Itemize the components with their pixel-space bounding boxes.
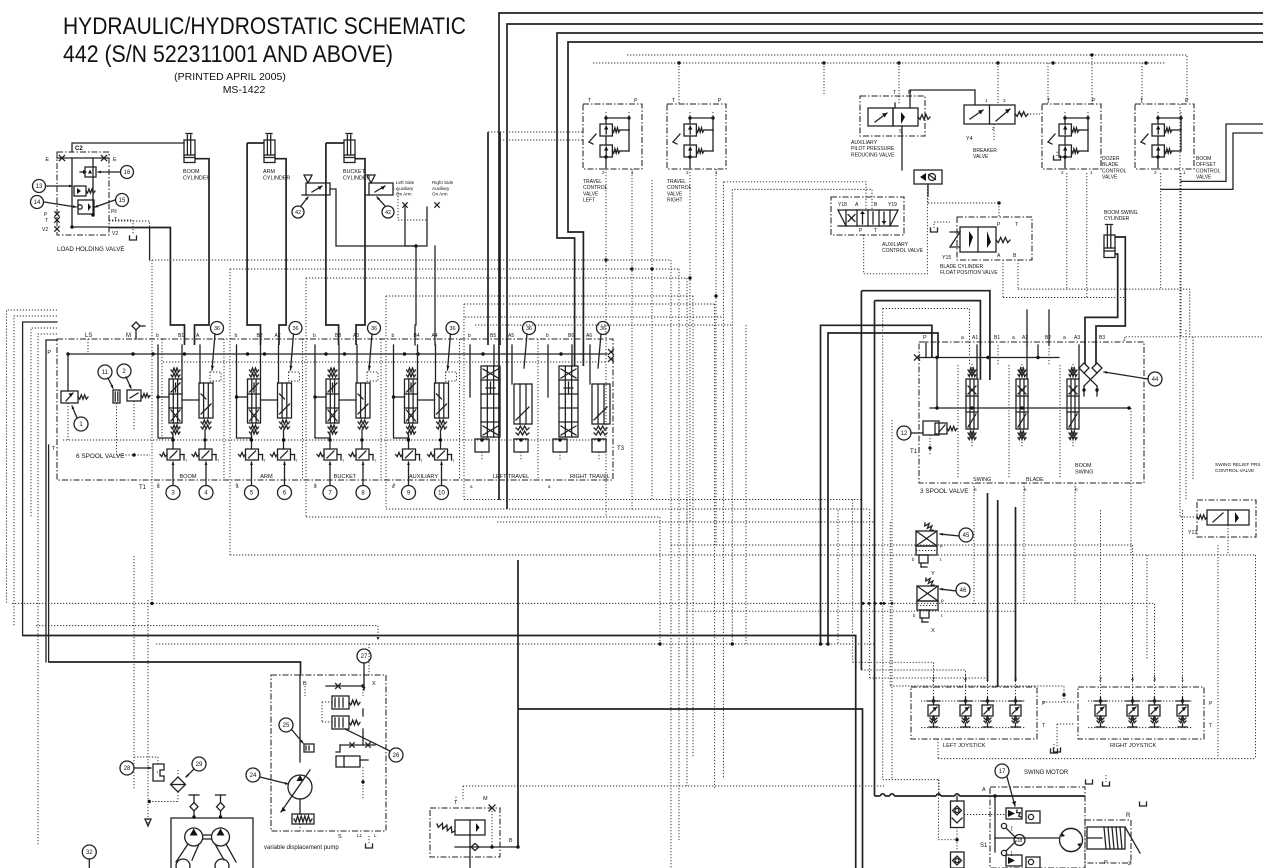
valve AUXILIARY CONTROL VALVE Y18 Y19	[831, 197, 924, 254]
pump case drain lines	[300, 644, 373, 848]
wire joystick feeds right	[1101, 510, 1219, 759]
svg-text:42: 42	[295, 210, 301, 216]
svg-text:M: M	[483, 796, 488, 802]
svg-text:3 SPOOL VALVE: 3 SPOOL VALVE	[920, 488, 969, 495]
filter assembly 28	[153, 764, 164, 781]
svg-text:SWING: SWING	[973, 477, 991, 483]
svg-text:b: b	[313, 333, 316, 339]
title text	[63, 13, 466, 96]
pointer circle 27	[357, 649, 371, 690]
svg-text:Left Side: Left Side	[396, 180, 415, 185]
svg-text:BREAKER: BREAKER	[973, 148, 997, 154]
wire joystick feeds left	[853, 493, 1016, 687]
wire 3 spool P line	[914, 342, 1059, 360]
swing motor label and pointer 17	[995, 764, 1069, 806]
cylinder ARM CYLINDER	[263, 134, 290, 182]
pointer circle 46	[940, 583, 970, 597]
valve oil cooler bypass M	[430, 796, 500, 857]
svg-text:E: E	[45, 157, 49, 163]
label left side auxiliary on arm	[396, 180, 415, 197]
svg-text:REDUCING VALVE: REDUCING VALVE	[851, 152, 895, 158]
valve BREAKER VALVE Y4	[964, 98, 1028, 160]
svg-text:A3: A3	[353, 333, 359, 339]
pump variable displacement pump box	[264, 675, 386, 851]
svg-text:42: 42	[385, 210, 391, 216]
svg-text:b: b	[392, 333, 395, 339]
svg-text:LOAD HOLDING VALVE: LOAD HOLDING VALVE	[57, 246, 125, 253]
svg-text:CONTROL: CONTROL	[667, 185, 692, 191]
svg-text:12: 12	[901, 431, 908, 437]
svg-text:X: X	[372, 681, 376, 687]
wire suction dotted lines	[134, 556, 158, 826]
valve block LEFT JOYSTICK	[911, 675, 1046, 749]
svg-text:BOOM: BOOM	[1075, 463, 1092, 469]
svg-text:E: E	[113, 157, 117, 163]
svg-text:2: 2	[1061, 170, 1064, 175]
svg-text:S: S	[338, 834, 342, 840]
svg-text:Y15: Y15	[942, 255, 951, 261]
wire load holding valve tank dotted	[109, 220, 150, 260]
svg-text:13: 13	[36, 184, 43, 190]
svg-text:a: a	[1012, 335, 1015, 341]
svg-text:SWING RELIEF PRS: SWING RELIEF PRS	[1215, 462, 1261, 468]
svg-text:P: P	[1104, 860, 1108, 866]
svg-text:BLADE: BLADE	[1102, 162, 1119, 168]
wire dotted bus y611	[686, 611, 1016, 681]
svg-text:BUCKET: BUCKET	[343, 169, 366, 175]
svg-text:LEFT JOYSTICK: LEFT JOYSTICK	[943, 743, 986, 749]
svg-text:P: P	[718, 98, 722, 104]
wire center vertical bundle	[671, 325, 746, 678]
wire tank line T dotted	[63, 439, 607, 441]
svg-text:36: 36	[449, 326, 455, 332]
svg-text:L: L	[374, 833, 377, 838]
svg-text:P: P	[634, 98, 638, 104]
svg-text:CONTROL: CONTROL	[1102, 168, 1127, 174]
pointer circle 15	[95, 194, 129, 208]
valve Left Side Auxiliary On Arm	[302, 175, 330, 195]
inlet relief valve 1	[61, 354, 88, 440]
pump bias spring	[292, 799, 314, 824]
pointer circle 1	[72, 406, 88, 431]
svg-text:LEFT: LEFT	[583, 198, 595, 204]
pointer circle 11	[98, 365, 113, 388]
svg-text:25: 25	[283, 723, 290, 729]
svg-text:A5: A5	[508, 333, 514, 339]
pilot valve Y (45)	[912, 523, 943, 577]
gear pump assembly	[171, 818, 253, 868]
wire aux on arm pilot lines	[330, 189, 439, 345]
port M vent symbol	[132, 322, 145, 339]
swing motor tanks	[1051, 744, 1147, 806]
svg-text:p: p	[941, 599, 944, 604]
tank symbol above boom offset	[1054, 150, 1061, 160]
wire top dotted pilot bus y55	[627, 55, 1187, 104]
wire boom cylinder lines	[109, 159, 209, 345]
pointer circle 14	[31, 196, 77, 209]
valve TRAVEL CONTROL VALVE LEFT	[583, 98, 642, 204]
svg-text:HYDRAULIC/HYDROSTATIC SCHEMATI: HYDRAULIC/HYDROSTATIC SCHEMATIC	[63, 13, 466, 40]
valve block 6 SPOOL VALVE box	[47, 333, 624, 491]
swing motor check valve lower	[951, 852, 965, 868]
svg-text:L1: L1	[357, 833, 363, 838]
pointer circle 36 right travel	[597, 322, 610, 369]
cylinder BOOM CYLINDER	[183, 134, 210, 182]
valve: load holding valve box	[42, 146, 118, 237]
swing motor check valve upper	[951, 796, 965, 828]
pointer circle 24	[246, 768, 288, 785]
wire P supply line 6 spool	[66, 350, 613, 363]
svg-text:FLOAT POSITION VALVE: FLOAT POSITION VALVE	[940, 270, 998, 276]
wire dotted bus y625	[36, 626, 380, 640]
svg-text:T3: T3	[617, 446, 625, 452]
svg-text:LEFT TRAVEL: LEFT TRAVEL	[493, 474, 529, 480]
spool BOOM SWING	[1067, 345, 1079, 447]
svg-text:b: b	[156, 333, 159, 339]
swing motor relief solenoids	[1006, 808, 1040, 868]
pump regulator solenoid 1	[332, 696, 360, 709]
svg-text:28: 28	[124, 766, 131, 772]
label right side auxiliary on arm	[432, 180, 454, 197]
svg-text:1: 1	[715, 170, 718, 175]
pump orifice block 25	[304, 744, 314, 752]
svg-text:a: a	[1063, 335, 1066, 341]
pointer circle 25	[279, 718, 303, 743]
svg-text:36: 36	[600, 326, 606, 332]
svg-text:BOOM: BOOM	[1196, 156, 1211, 162]
svg-text:P: P	[1092, 98, 1096, 104]
svg-text:T: T	[1015, 222, 1018, 228]
pointer circle 16	[98, 166, 134, 179]
label load holding valve	[57, 246, 125, 253]
pointer circle 42 right	[377, 197, 394, 218]
crossover relief check valves 44	[1079, 363, 1102, 396]
svg-text:S1: S1	[980, 843, 988, 849]
svg-text:A4: A4	[432, 333, 438, 339]
svg-text:OFFSET: OFFSET	[1196, 162, 1216, 168]
svg-text:Y19: Y19	[888, 202, 897, 208]
element 2 unload solenoid	[117, 390, 151, 457]
wire load holding valve to boom cylinder	[72, 143, 184, 152]
pointer circle 26	[345, 729, 403, 762]
wire top border line 2	[507, 24, 1263, 509]
wire dotted bus y786	[463, 786, 884, 800]
svg-text:T: T	[1042, 723, 1045, 729]
svg-text:RIGHT: RIGHT	[667, 198, 683, 204]
swing brake	[1085, 813, 1140, 867]
spool SWING	[966, 345, 998, 447]
svg-text:Y4: Y4	[966, 136, 973, 142]
swing motor box	[982, 787, 1085, 868]
svg-text:CYLINDER: CYLINDER	[183, 176, 210, 182]
wire aprv connections	[895, 90, 975, 170]
cylinder BUCKET CYLINDER	[343, 134, 370, 182]
wire center solid verticals	[518, 560, 863, 868]
wire blade float valve top	[928, 196, 1049, 345]
svg-text:variable displacement pump: variable displacement pump	[264, 845, 339, 851]
svg-text:Y13: Y13	[1188, 530, 1197, 536]
svg-text:V2: V2	[42, 227, 48, 233]
wire boom swing cylinder lines	[1085, 237, 1125, 364]
main relief 3 spool	[923, 421, 957, 455]
svg-text:X: X	[931, 628, 935, 634]
svg-text:T: T	[45, 218, 48, 224]
svg-text:2: 2	[1154, 170, 1157, 175]
element 11 orifice	[113, 390, 120, 455]
svg-text:R: R	[1126, 813, 1131, 819]
pump main circle 24	[281, 770, 312, 812]
spool BLADE	[1016, 345, 1049, 447]
pointer circle 12	[897, 426, 923, 440]
svg-text:VALVE: VALVE	[583, 191, 599, 197]
svg-text:b: b	[546, 333, 549, 339]
spool section LEFT TRAVEL	[468, 333, 532, 480]
valve block 3 SPOOL VALVE box	[910, 335, 1144, 495]
svg-text:a: a	[961, 335, 964, 341]
svg-text:B5: B5	[490, 333, 496, 339]
pointer circle 28	[120, 761, 151, 775]
wire top border line 3	[557, 33, 1263, 366]
svg-text:32: 32	[86, 850, 93, 856]
pointer circle 36 ARM	[289, 322, 302, 371]
svg-text:A: A	[982, 787, 986, 793]
svg-text:15: 15	[119, 198, 126, 204]
svg-text:1: 1	[631, 170, 634, 175]
svg-text:B2: B2	[257, 333, 263, 339]
pointer circle 36 left travel	[523, 322, 536, 369]
svg-text:A2: A2	[275, 333, 281, 339]
svg-text:16: 16	[124, 170, 131, 176]
svg-text:Auxiliary: Auxiliary	[396, 186, 414, 191]
svg-text:TRAVEL: TRAVEL	[583, 179, 602, 185]
svg-text:Right Side: Right Side	[432, 180, 454, 185]
svg-text:29: 29	[196, 762, 203, 768]
svg-text:On Arm: On Arm	[432, 192, 448, 197]
svg-text:26: 26	[393, 753, 400, 759]
pointer circle 36 AUXILIARY	[446, 322, 459, 371]
svg-text:BOOM SWING: BOOM SWING	[1104, 210, 1138, 216]
svg-text:B1: B1	[994, 335, 1000, 341]
svg-text:442 (S/N 522311001 AND ABOVE): 442 (S/N 522311001 AND ABOVE)	[63, 41, 393, 68]
svg-text:36: 36	[526, 326, 532, 332]
wire 3 spool top feeds	[861, 291, 1038, 380]
wire top border line 4	[568, 42, 1263, 366]
valve DOZER BLADE CONTROL VALVE	[1042, 98, 1127, 181]
wire 3 spool bottom drops	[974, 104, 1186, 604]
svg-text:(PRINTED APRIL 2005): (PRINTED APRIL 2005)	[174, 71, 286, 83]
valve TRAVEL CONTROL VALVE RIGHT	[667, 98, 726, 204]
cylinder BOOM SWING CYLINDER	[1104, 210, 1138, 258]
svg-text:14: 14	[34, 200, 41, 206]
svg-text:A3: A3	[1074, 335, 1080, 341]
svg-text:AUXILIARY: AUXILIARY	[409, 474, 438, 480]
pointer circle 36 BUCKET	[368, 322, 381, 371]
svg-text:1: 1	[1183, 170, 1186, 175]
pointer circle 2	[117, 364, 131, 388]
swing motor feed line	[875, 794, 1086, 852]
svg-text:Auxiliary: Auxiliary	[432, 186, 450, 191]
svg-text:BLADE CYLINDER: BLADE CYLINDER	[940, 264, 983, 270]
svg-text:BOOM: BOOM	[183, 169, 200, 175]
svg-text:VALVE: VALVE	[1196, 175, 1212, 181]
svg-text:VALVE: VALVE	[1102, 175, 1118, 181]
valve: load holding valve internals	[70, 158, 109, 229]
wire right vertical cluster x852-890	[853, 291, 1064, 796]
valve Right Side Auxiliary On Arm	[365, 175, 393, 195]
pump servo piston	[336, 756, 368, 767]
svg-text:P: P	[923, 335, 927, 341]
wire M valve bottom	[455, 795, 520, 868]
wire arm cylinder lines	[247, 143, 286, 345]
svg-text:18: 18	[1017, 838, 1023, 844]
spool section BOOM	[156, 333, 221, 500]
wire solid line y662 to pump	[49, 662, 301, 676]
pointer circle 13	[33, 180, 73, 193]
svg-text:b: b	[235, 333, 238, 339]
svg-text:CYLINDER: CYLINDER	[1104, 216, 1130, 222]
svg-text:M: M	[126, 333, 131, 339]
wire long dotted bus y545	[671, 545, 1133, 681]
svg-text:44: 44	[1152, 377, 1159, 383]
svg-text:ARM: ARM	[260, 474, 273, 480]
pointer circle 45	[940, 528, 973, 542]
svg-text:LS: LS	[85, 333, 92, 339]
svg-text:B1: B1	[178, 333, 184, 339]
svg-text:6 SPOOL VALVE: 6 SPOOL VALVE	[76, 453, 125, 460]
gear pump check valves	[189, 795, 226, 819]
svg-text:RIGHT TRAVEL: RIGHT TRAVEL	[570, 474, 610, 480]
svg-text:A6: A6	[586, 333, 592, 339]
svg-text:24: 24	[250, 773, 257, 779]
wire pilot bus rows to joystick drops	[152, 182, 732, 868]
svg-text:CYLINDER: CYLINDER	[343, 176, 370, 182]
svg-text:BLADE: BLADE	[1026, 477, 1044, 483]
svg-text:SWING: SWING	[1075, 470, 1093, 476]
svg-text:A1: A1	[972, 335, 978, 341]
wire LS line	[87, 339, 89, 354]
wire left edge vertical bundle	[7, 310, 58, 845]
svg-text:45: 45	[963, 533, 970, 539]
svg-text:1: 1	[1090, 170, 1093, 175]
svg-text:T1: T1	[139, 485, 147, 491]
svg-text:B3: B3	[1099, 335, 1105, 341]
svg-text:CONTROL VALVE: CONTROL VALVE	[882, 248, 924, 254]
valve block RIGHT JOYSTICK	[1078, 675, 1213, 749]
svg-text:2: 2	[602, 170, 605, 175]
svg-text:36: 36	[214, 326, 220, 332]
wire long solid bus y635	[23, 636, 856, 868]
svg-text:36: 36	[371, 326, 377, 332]
svg-text:BOOM: BOOM	[179, 474, 196, 480]
svg-text:TRAVEL: TRAVEL	[667, 179, 686, 185]
wire long dotted bus y644	[156, 642, 874, 645]
svg-text:ARM: ARM	[263, 169, 275, 175]
pump internal wires	[300, 676, 375, 762]
svg-text:AUXILIARY: AUXILIARY	[851, 140, 878, 146]
pointer circle 44	[1104, 371, 1162, 386]
pointer circle 29	[186, 757, 206, 777]
check valve with orifice below aprv	[914, 170, 942, 196]
spool section ARM	[235, 333, 300, 500]
pump regulator solenoid 2	[332, 716, 360, 729]
wire pump pressure to 3 spool	[821, 325, 939, 644]
svg-text:CONTROL: CONTROL	[1196, 168, 1221, 174]
svg-text:A2: A2	[1022, 335, 1028, 341]
spool section BUCKET	[313, 333, 378, 500]
svg-text:B: B	[509, 838, 513, 844]
svg-text:27: 27	[361, 654, 368, 660]
svg-text:46: 46	[960, 588, 967, 594]
wire tank return nested lines	[306, 500, 875, 645]
spool section AUXILIARY	[392, 333, 457, 500]
svg-text:Y: Y	[931, 571, 935, 577]
svg-text:B2: B2	[1045, 335, 1051, 341]
svg-text:p: p	[940, 544, 943, 549]
svg-text:B4: B4	[414, 333, 420, 339]
pointer circle 42 left	[292, 197, 308, 218]
wire joystick P supply	[1043, 693, 1074, 752]
svg-text:Y18: Y18	[838, 202, 847, 208]
svg-text:AUXILIARY: AUXILIARY	[882, 242, 909, 248]
svg-text:36: 36	[292, 326, 298, 332]
pilot valve X (46)	[913, 578, 944, 634]
wire long dotted bus y604	[12, 602, 1155, 681]
svg-text:SWING MOTOR: SWING MOTOR	[1024, 770, 1069, 776]
wire auxiliary control valve lines	[723, 182, 927, 274]
svg-text:T: T	[874, 228, 877, 234]
svg-text:T1: T1	[910, 449, 918, 455]
svg-text:P: P	[1185, 98, 1189, 104]
svg-text:10: 10	[438, 491, 445, 497]
svg-text:P: P	[47, 350, 51, 356]
svg-text:2: 2	[686, 170, 689, 175]
svg-text:11: 11	[102, 370, 109, 376]
svg-text:V2: V2	[112, 231, 118, 237]
svg-text:PILOT PRESSURE: PILOT PRESSURE	[851, 146, 895, 152]
wire travel control valve drops	[488, 132, 718, 545]
pointer circle 32	[82, 845, 96, 868]
wire top dotted pilot bus y63	[593, 53, 1166, 105]
wire dozer and boom offset drops	[1003, 173, 1263, 480]
wire swing motor drain dotted	[883, 420, 1006, 852]
filter diamond 29	[148, 770, 186, 803]
svg-text:T: T	[1209, 723, 1212, 729]
valve AUXILIARY PILOT PRESSURE REDUCING VALVE	[851, 90, 930, 158]
svg-text:B3: B3	[335, 333, 341, 339]
labels a on T1 line	[157, 484, 551, 489]
svg-text:B6: B6	[568, 333, 574, 339]
wire right edge nets to boom offset	[1161, 124, 1263, 189]
svg-text:C2: C2	[75, 146, 83, 152]
wire long dotted bus y555	[230, 555, 1256, 759]
svg-text:DOZER: DOZER	[1102, 156, 1120, 162]
swing motor hydraulic motor symbol	[995, 828, 1083, 851]
wire bucket cylinder lines	[326, 143, 365, 345]
svg-text:Pil: Pil	[111, 209, 117, 215]
svg-text:CONTROL: CONTROL	[583, 185, 608, 191]
svg-text:MS-1422: MS-1422	[223, 84, 266, 96]
valve SWING RELIEF PRESSURE CONTROL VALVE Y13	[1180, 462, 1261, 555]
pointer circle 36 BOOM	[211, 322, 224, 371]
wire breaker valve connections	[994, 114, 1040, 140]
svg-text:VALVE: VALVE	[667, 191, 683, 197]
svg-text:b: b	[468, 333, 471, 339]
svg-text:RIGHT JOYSTICK: RIGHT JOYSTICK	[1110, 743, 1156, 749]
wire 3 spool work lines	[930, 358, 1131, 479]
wire top border line 1	[499, 13, 1263, 500]
valve BOOM OFFSET CONTROL VALVE	[1135, 98, 1221, 181]
svg-text:17: 17	[999, 769, 1006, 775]
